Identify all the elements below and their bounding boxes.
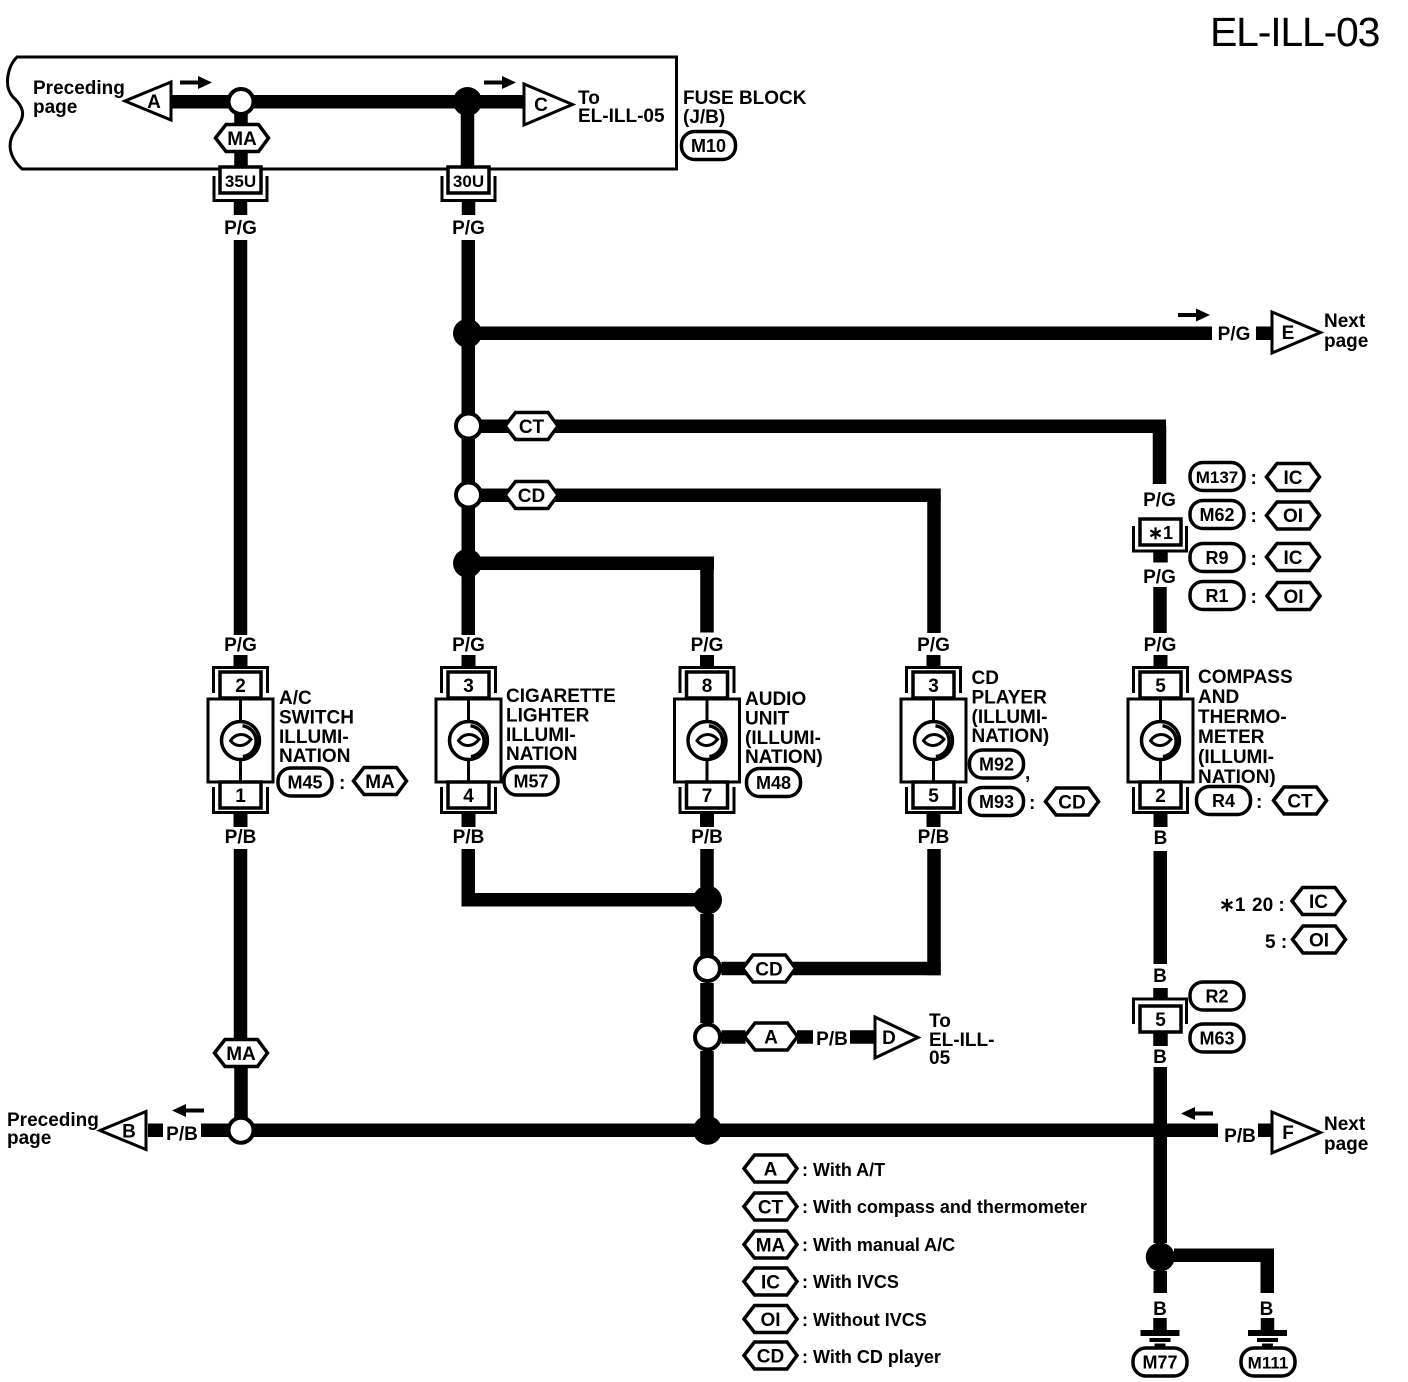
tag OI (M62) xyxy=(1267,502,1320,529)
svg-text:B: B xyxy=(1153,966,1167,987)
svg-text:CD: CD xyxy=(518,486,545,507)
wire P/B label to node B xyxy=(201,1124,231,1138)
svg-text:AUDIO: AUDIO xyxy=(745,689,806,710)
wire connector B to P/B label xyxy=(148,1124,163,1138)
arrow (right) above connector C xyxy=(484,76,516,89)
svg-text:A: A xyxy=(764,1028,778,1049)
svg-text:PLAYER: PLAYER xyxy=(972,687,1048,708)
page connector A (triangle) xyxy=(125,82,171,120)
svg-text:D: D xyxy=(882,1028,896,1049)
connector M137 (oval) xyxy=(1190,463,1244,491)
svg-text:,: , xyxy=(1025,763,1030,784)
svg-text:: With A/T: : With A/T xyxy=(802,1160,885,1180)
wire A node down to bus junction xyxy=(700,1051,714,1125)
svg-text:NATION: NATION xyxy=(279,746,350,767)
svg-text:CD: CD xyxy=(1058,793,1085,814)
svg-text:IC: IC xyxy=(1309,892,1328,913)
tag CD on branch xyxy=(505,482,558,509)
svg-text:P/B: P/B xyxy=(453,827,485,848)
svg-text:Next: Next xyxy=(1324,311,1366,332)
svg-text:page: page xyxy=(33,97,77,118)
connector M93 (oval) xyxy=(970,788,1024,816)
svg-text:5 :: 5 : xyxy=(1265,932,1287,953)
svg-text:E: E xyxy=(1282,323,1295,344)
svg-text:B: B xyxy=(1260,1299,1274,1320)
svg-text:1: 1 xyxy=(235,786,246,807)
connector *1 xyxy=(1134,519,1187,563)
svg-text:M10: M10 xyxy=(691,136,726,156)
connector R2/M63 pin 5 xyxy=(1134,988,1187,1046)
svg-text:CD: CD xyxy=(757,1347,784,1368)
connector R2 (oval) xyxy=(1190,982,1244,1010)
wire ground left down xyxy=(1154,1271,1168,1293)
svg-text::: : xyxy=(339,773,345,794)
tag OI (R1) xyxy=(1267,583,1320,610)
connector M45 (oval) xyxy=(278,768,332,796)
svg-text:ILLUMI-: ILLUMI- xyxy=(506,725,576,746)
tag IC (note) xyxy=(1292,888,1345,915)
wire lamp M92 down and left to CD tag xyxy=(927,849,941,975)
tag A (with A/T) xyxy=(745,1023,798,1050)
wire lamp M45 down to MA tag xyxy=(234,849,248,1038)
svg-text:THERMO-: THERMO- xyxy=(1198,707,1287,728)
wire CD branch vertical down xyxy=(927,495,941,633)
svg-text:NATION): NATION) xyxy=(745,747,823,768)
svg-text::: : xyxy=(1029,793,1035,814)
wire CD node down to A node xyxy=(700,983,714,1023)
wire lamp M57 down and right to junction xyxy=(462,849,701,907)
svg-text:B: B xyxy=(1153,1299,1167,1320)
svg-text:CD: CD xyxy=(972,668,999,689)
svg-text:NATION: NATION xyxy=(506,744,577,765)
svg-text:CIGARETTE: CIGARETTE xyxy=(506,686,616,707)
arrow (right) before connector E xyxy=(1178,309,1210,322)
svg-text:P/G: P/G xyxy=(1218,324,1251,345)
svg-text:(ILLUMI-: (ILLUMI- xyxy=(745,728,821,749)
svg-text:C: C xyxy=(534,95,548,116)
svg-text:P/G: P/G xyxy=(691,635,724,656)
tag CD (M93) xyxy=(1046,788,1099,815)
svg-text:METER: METER xyxy=(1198,727,1265,748)
svg-text:P/G: P/G xyxy=(224,635,257,656)
wire A tag to P/B label xyxy=(797,1030,813,1044)
page connector F (triangle) next page xyxy=(1272,1112,1321,1153)
svg-text:CD: CD xyxy=(755,960,782,981)
svg-text:: Without IVCS: : Without IVCS xyxy=(802,1310,927,1330)
tag IC (M137) xyxy=(1267,464,1320,491)
svg-text:M57: M57 xyxy=(513,772,548,792)
svg-text:A/C: A/C xyxy=(279,688,312,709)
tag IC (R9) xyxy=(1267,544,1320,571)
svg-text:M92: M92 xyxy=(979,755,1014,775)
svg-text:MA: MA xyxy=(756,1236,786,1257)
lamp audio unit illumination M48 xyxy=(675,655,740,827)
svg-text:IC: IC xyxy=(761,1273,780,1294)
tag CT on branch xyxy=(505,413,558,440)
svg-text:P/G: P/G xyxy=(1143,490,1176,511)
lamp compass and thermometer illumination R4 xyxy=(1128,655,1193,827)
lamp A/C switch illumination M45 xyxy=(208,655,273,827)
wire CT branch horizontal xyxy=(480,420,1166,434)
svg-text:R4: R4 xyxy=(1212,791,1235,811)
connector M77 (oval) xyxy=(1133,1348,1187,1376)
page connector D (triangle) to EL-ILL-05 xyxy=(875,1017,918,1058)
svg-text:NATION): NATION) xyxy=(972,726,1050,747)
wire node A to MA tag xyxy=(234,112,248,126)
wire junction to CD node xyxy=(700,914,714,956)
connector M10 (oval) xyxy=(682,132,736,160)
svg-text:(ILLUMI-: (ILLUMI- xyxy=(972,707,1048,728)
junction node (filled) audio branch xyxy=(453,549,482,578)
svg-text:P/B: P/B xyxy=(691,827,723,848)
legend tag IC xyxy=(744,1268,797,1295)
svg-text:P/G: P/G xyxy=(452,218,485,239)
node C (junction, filled) xyxy=(453,87,482,116)
svg-text::: : xyxy=(1251,468,1257,489)
wire ground branch right xyxy=(1174,1249,1274,1294)
svg-text:7: 7 xyxy=(702,786,713,807)
arrow (right) above node A xyxy=(180,76,212,89)
svg-text::: : xyxy=(1251,549,1257,570)
svg-text:CT: CT xyxy=(1287,792,1313,813)
tag CT (R4) xyxy=(1274,787,1327,814)
junction node (filled) on bus at audio column xyxy=(693,1116,722,1145)
svg-text:B: B xyxy=(1154,828,1168,849)
connector M48 (oval) xyxy=(747,769,801,797)
bus wire B to F xyxy=(253,1124,1218,1138)
node A (open) xyxy=(229,89,254,114)
svg-text:: With CD player: : With CD player xyxy=(802,1347,941,1367)
legend tag CD xyxy=(744,1342,797,1369)
lamp cigarette lighter illumination M57 xyxy=(436,655,501,827)
svg-text:∗1: ∗1 xyxy=(1219,895,1246,916)
svg-text:3: 3 xyxy=(928,676,939,697)
node B (open) xyxy=(229,1118,254,1143)
svg-text:M62: M62 xyxy=(1199,505,1234,525)
svg-text:A: A xyxy=(764,1160,778,1181)
svg-text:AND: AND xyxy=(1198,687,1239,708)
connector R1 (oval) xyxy=(1190,582,1244,610)
wire branch node to page connector E xyxy=(478,327,1212,341)
wire node C to fuse 30U xyxy=(461,108,475,169)
wire fuse 30U down main branch column xyxy=(462,240,476,635)
wire lamp R4 down (B) xyxy=(1154,851,1168,964)
svg-text:05: 05 xyxy=(929,1048,951,1069)
connector M92 (oval) xyxy=(970,750,1024,778)
svg-text:20 :: 20 : xyxy=(1252,895,1285,916)
wire A node to A tag xyxy=(722,1030,746,1044)
arrow (left) above B row xyxy=(172,1104,204,1117)
wire audio branch horizontal xyxy=(478,557,714,571)
svg-text:3: 3 xyxy=(463,676,474,697)
svg-text:M111: M111 xyxy=(1248,1354,1289,1373)
svg-text:M63: M63 xyxy=(1199,1029,1234,1049)
connector M63 (oval) xyxy=(1190,1024,1244,1052)
svg-text:P/G: P/G xyxy=(1143,567,1176,588)
svg-text:OI: OI xyxy=(1309,931,1329,952)
svg-text:R2: R2 xyxy=(1205,987,1228,1007)
svg-text:CT: CT xyxy=(519,417,545,438)
svg-text:page: page xyxy=(7,1128,51,1149)
svg-text:∗1: ∗1 xyxy=(1148,523,1173,543)
svg-text:B: B xyxy=(1153,1047,1167,1068)
svg-text:OI: OI xyxy=(1283,506,1303,527)
wire fuse 35U down to lamp M45 xyxy=(234,240,248,635)
legend tag A xyxy=(744,1155,797,1182)
svg-text:ILLUMI-: ILLUMI- xyxy=(279,727,349,748)
legend tag OI xyxy=(744,1306,797,1333)
svg-text:4: 4 xyxy=(463,786,474,807)
svg-text:OI: OI xyxy=(760,1310,780,1331)
svg-text:FUSE BLOCK: FUSE BLOCK xyxy=(683,88,807,109)
svg-text:P/B: P/B xyxy=(166,1124,198,1145)
junction node (filled) E branch xyxy=(453,319,482,348)
wire connector 5 down through bus to ground junction xyxy=(1154,1067,1168,1243)
svg-text:Next: Next xyxy=(1324,1114,1366,1135)
svg-text:B: B xyxy=(122,1122,136,1143)
svg-text:P/G: P/G xyxy=(1144,635,1177,656)
svg-text:LIGHTER: LIGHTER xyxy=(506,705,590,726)
svg-text:P/B: P/B xyxy=(225,827,257,848)
svg-text:R1: R1 xyxy=(1205,586,1228,606)
ground symbol M111 xyxy=(1248,1318,1287,1347)
svg-text:R9: R9 xyxy=(1205,548,1228,568)
svg-text:page: page xyxy=(1324,1134,1368,1155)
lamp CD player illumination M92/M93 xyxy=(901,655,966,827)
svg-text:MA: MA xyxy=(227,129,257,150)
wire MA tag to fuse 35U xyxy=(234,151,248,169)
svg-text:(J/B): (J/B) xyxy=(683,107,725,128)
connector M111 (oval) xyxy=(1241,1348,1295,1376)
tag OI (note) xyxy=(1293,926,1346,953)
wire lamp M48 down to junction xyxy=(700,849,714,887)
svg-text:EL-ILL-03: EL-ILL-03 xyxy=(1210,9,1379,55)
wire A-triangle to node A xyxy=(169,95,229,109)
wire CD row horizontal xyxy=(722,962,941,976)
page connector C (triangle) to EL-ILL-05 xyxy=(524,84,573,125)
svg-text:OI: OI xyxy=(1283,587,1303,608)
svg-text:M45: M45 xyxy=(287,773,322,793)
svg-text:: With manual A/C: : With manual A/C xyxy=(802,1235,955,1255)
svg-text:M93: M93 xyxy=(979,792,1014,812)
connector R9 (oval) xyxy=(1190,544,1244,572)
connector M62 (oval) xyxy=(1190,501,1244,529)
ground symbol M77 xyxy=(1141,1318,1180,1347)
svg-text:30U: 30U xyxy=(453,172,484,191)
svg-text:To: To xyxy=(929,1011,951,1032)
svg-text:P/B: P/B xyxy=(816,1029,848,1050)
svg-text:page: page xyxy=(1324,331,1368,352)
svg-text:5: 5 xyxy=(928,786,939,807)
svg-text:Preceding: Preceding xyxy=(33,78,125,99)
tag CD (row) xyxy=(743,955,796,982)
svg-text:MA: MA xyxy=(226,1044,256,1065)
svg-text:IC: IC xyxy=(1284,468,1303,489)
svg-text:5: 5 xyxy=(1155,676,1166,697)
fuse 35U xyxy=(214,167,267,215)
svg-text:8: 8 xyxy=(702,676,713,697)
node CD row (open) xyxy=(695,956,720,981)
svg-text:5: 5 xyxy=(1155,1010,1166,1031)
svg-text:P/B: P/B xyxy=(1224,1126,1256,1147)
svg-text:: With IVCS: : With IVCS xyxy=(802,1272,899,1292)
wire CD branch horizontal xyxy=(480,489,941,503)
connector R4 (oval) xyxy=(1197,787,1251,815)
wire stub before connector E xyxy=(1256,327,1274,341)
svg-text:F: F xyxy=(1282,1123,1294,1144)
svg-text:IC: IC xyxy=(1284,548,1303,569)
node A row (open) xyxy=(695,1025,720,1050)
page connector E (triangle) next page xyxy=(1272,312,1321,353)
junction node (filled) P/B join xyxy=(693,886,722,915)
tag MA (M45) xyxy=(354,768,407,795)
wire audio branch vertical down xyxy=(700,557,714,633)
page connector B (triangle) xyxy=(100,1112,146,1150)
svg-text:M137: M137 xyxy=(1196,468,1239,487)
connector M57 (oval) xyxy=(504,767,558,795)
svg-text:COMPASS: COMPASS xyxy=(1198,667,1293,688)
svg-text:MA: MA xyxy=(365,772,395,793)
svg-text:: With compass and thermometer: : With compass and thermometer xyxy=(802,1197,1087,1217)
wire MA tag to node B xyxy=(234,1068,248,1118)
fuse block box M10 xyxy=(7,57,676,169)
fuse 30U xyxy=(442,167,495,215)
svg-text:P/G: P/G xyxy=(452,635,485,656)
junction node (filled) ground split xyxy=(1146,1243,1175,1272)
svg-text::: : xyxy=(1256,792,1262,813)
wire CT branch vertical down xyxy=(1153,426,1167,484)
svg-text:M77: M77 xyxy=(1142,1353,1177,1373)
wire node C to connector C xyxy=(478,95,524,109)
wire *1 to lamp R4 xyxy=(1153,587,1167,633)
svg-text:2: 2 xyxy=(1155,786,1166,807)
tag MA (lower) xyxy=(215,1040,268,1067)
svg-text:EL-ILL-05: EL-ILL-05 xyxy=(578,106,665,127)
node CT branch (open) xyxy=(456,414,481,439)
svg-text:UNIT: UNIT xyxy=(745,708,790,729)
svg-text::: : xyxy=(1251,587,1257,608)
svg-text::: : xyxy=(1251,506,1257,527)
svg-text:A: A xyxy=(147,92,161,113)
svg-text:P/B: P/B xyxy=(918,827,950,848)
arrow (left) above bus near F xyxy=(1181,1107,1213,1120)
svg-text:2: 2 xyxy=(235,676,246,697)
svg-text:SWITCH: SWITCH xyxy=(279,707,354,728)
svg-text:M48: M48 xyxy=(756,773,791,793)
tag MA (with manual A/C) top xyxy=(216,125,269,152)
wire P/B label to connector D xyxy=(850,1030,875,1044)
wire stub before connector F xyxy=(1258,1124,1274,1138)
svg-text:CT: CT xyxy=(758,1198,784,1219)
node CD branch (open) xyxy=(456,483,481,508)
legend tag CT xyxy=(744,1193,797,1220)
legend tag MA xyxy=(744,1231,797,1258)
svg-text:(ILLUMI-: (ILLUMI- xyxy=(1198,747,1274,768)
wire node A to node C xyxy=(253,95,457,109)
svg-text:P/G: P/G xyxy=(224,218,257,239)
svg-text:35U: 35U xyxy=(225,172,256,191)
svg-text:P/G: P/G xyxy=(917,635,950,656)
